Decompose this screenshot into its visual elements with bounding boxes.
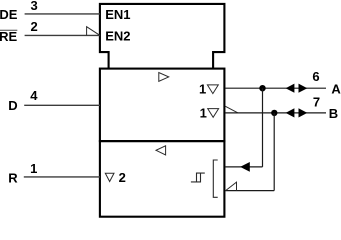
svg-text:1: 1 <box>200 105 207 120</box>
svg-text:1: 1 <box>199 82 206 97</box>
receiver input wire from A <box>225 166 262 168</box>
driver block <box>100 69 224 142</box>
polarity wedge on EN2 input <box>87 27 100 36</box>
wire from junction B down to receiver input <box>273 113 275 191</box>
wire pin2 RE <box>25 34 100 36</box>
polarity triangle output A <box>207 85 218 94</box>
svg-text:B: B <box>329 106 338 121</box>
svg-text:3: 3 <box>31 0 38 13</box>
enable block (EN1/EN2 common control) <box>100 4 224 69</box>
bidirectional arrows pin B <box>286 108 295 117</box>
polarity wedge on driver output B <box>225 106 238 113</box>
svg-text:2: 2 <box>31 19 38 34</box>
arrow on receiver input A <box>240 162 250 172</box>
junction dot A <box>259 85 265 91</box>
wire A output <box>225 87 326 89</box>
differential input bracket <box>213 160 217 197</box>
receiver output polarity triangle <box>105 173 114 181</box>
wire pin1 R <box>24 176 100 178</box>
hysteresis symbol <box>191 173 205 182</box>
junction dot B <box>271 110 277 116</box>
svg-text:7: 7 <box>313 95 320 110</box>
svg-text:1: 1 <box>30 161 37 176</box>
wire from junction A down to receiver input <box>262 88 264 167</box>
svg-text:A: A <box>331 81 341 96</box>
receiver amplifier symbol <box>156 146 166 155</box>
svg-text:D: D <box>8 98 17 113</box>
svg-text:EN1: EN1 <box>105 7 130 22</box>
polarity triangle output B <box>208 109 219 118</box>
receiver input wire from B <box>225 190 274 192</box>
svg-text:DE: DE <box>0 7 18 22</box>
driver amplifier symbol <box>159 73 169 82</box>
svg-text:EN2: EN2 <box>105 29 130 44</box>
svg-text:R: R <box>8 171 18 186</box>
svg-text:4: 4 <box>30 88 38 103</box>
open wedge on receiver input B <box>226 182 237 191</box>
wire pin4 D <box>24 104 100 106</box>
wire B output <box>225 112 326 114</box>
bidirectional arrows pin A <box>286 84 295 93</box>
svg-text:6: 6 <box>312 69 319 84</box>
receiver block <box>100 141 224 217</box>
svg-text:2: 2 <box>119 170 126 185</box>
svg-text:RE: RE <box>0 29 17 44</box>
wire pin3 DE <box>25 13 100 15</box>
